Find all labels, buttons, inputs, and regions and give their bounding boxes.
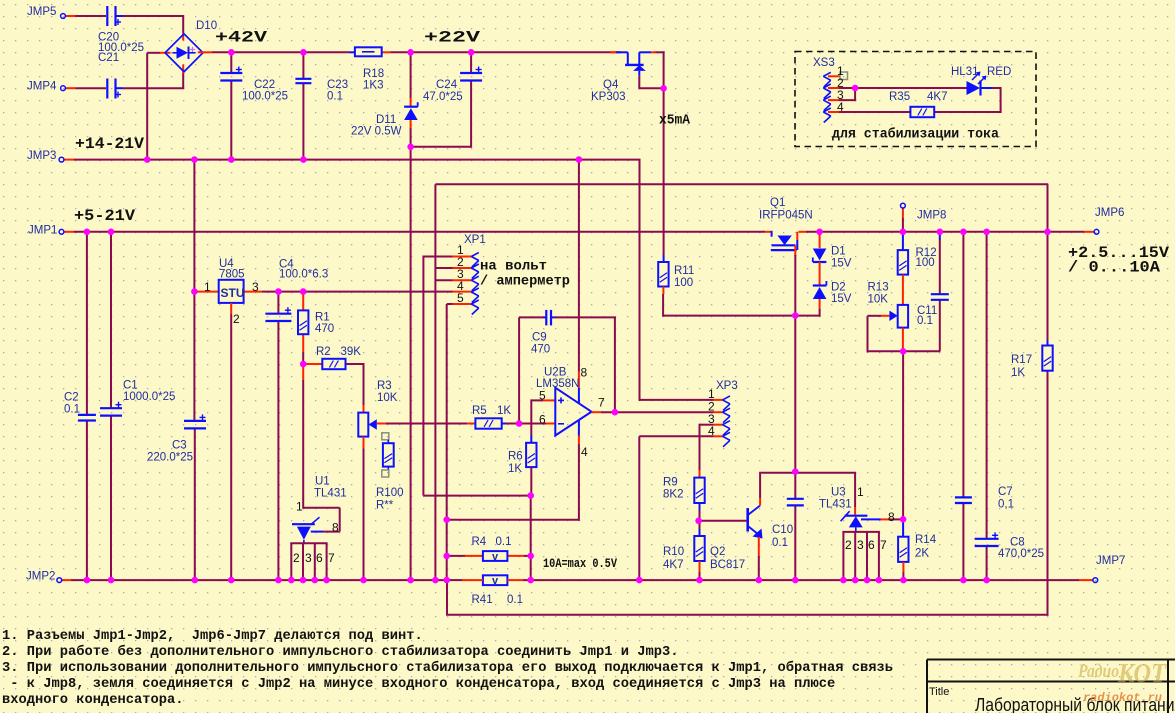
wire JMP2 ground rail [62,579,71,581]
svg-text:HL31: HL31 [951,66,979,78]
svg-text:TL431: TL431 [819,499,852,511]
capacitor C7 [955,496,972,498]
connector XS3 [823,72,831,76]
svg-text:Радио: Радио [1077,661,1119,682]
junction dot R6 bottom node [527,492,534,499]
capacitor C23 [295,78,311,80]
capacitor C11 [931,293,949,295]
svg-text:7: 7 [598,396,605,410]
resistor R14 lead [902,519,904,536]
wire Q4 drain to node [656,51,665,53]
connector XS3 dashed box [795,52,1036,147]
wire op-amp plus input to R6 [543,399,555,401]
wire U4 pin1 column from JMP3 [193,159,195,292]
op-amp U2B LM358N [555,388,591,436]
wire XP3 pin4 ground column [639,435,713,437]
svg-text:10A=max 0.5V: 10A=max 0.5V [543,557,617,571]
svg-text:JMP8: JMP8 [917,210,946,222]
resistor R2 [322,359,345,369]
svg-text:JMP5: JMP5 [27,6,56,18]
wire pin4 row to sense chain [446,519,579,521]
svg-text:STU: STU [221,286,245,300]
svg-text:R14: R14 [915,534,937,546]
svg-text:входного конденсатора.: входного конденсатора. [2,692,184,708]
wire R9 to R10 node [699,503,701,510]
wire R2 to R3 [363,364,365,405]
svg-text:+14-21V: +14-21V [75,135,145,153]
svg-text:C2: C2 [64,392,79,404]
svg-text:Q4: Q4 [603,79,619,91]
svg-text:TL431: TL431 [314,488,347,500]
svg-text:C1: C1 [123,380,138,392]
wire XS3 pin4 row through R35 [828,111,839,113]
svg-text:1: 1 [296,500,303,514]
svg-text:470,0*25: 470,0*25 [998,548,1044,560]
wire R3 wiper to R5 [377,423,386,425]
capacitor C24 column [470,52,472,73]
svg-text:220.0*25: 220.0*25 [147,452,193,464]
wire XS3 pin2 row to LED [828,87,839,89]
junction dot D11 bottom [407,144,414,151]
svg-text:Title: Title [929,686,949,698]
capacitor C3 column [193,292,195,421]
wire XP3 pin3 to R9 [700,424,714,426]
svg-text:для стабилизации тока: для стабилизации тока [832,127,1000,143]
wire U3 pins 2/3/6/7 comb [842,531,880,533]
capacitor C1 [100,407,122,409]
wire U4 pin2 ground column [230,303,232,314]
capacitor C4 [265,313,291,315]
svg-text:2. При работе без дополнительн: 2. При работе без дополнительного импуль… [2,644,679,660]
wire Q4 source loop [638,71,640,76]
svg-text:v: v [492,551,499,563]
shunt regulator U1 TL431 [292,523,315,525]
svg-text:100: 100 [674,277,693,289]
junction dot XS3 pin2/3 [852,85,859,92]
junction dots +42V rail [228,49,235,56]
svg-text:R18: R18 [363,68,384,80]
wire U4 output row to XP1 pin4 [262,291,453,293]
svg-text:JMP3: JMP3 [27,150,56,162]
svg-text:1K: 1K [508,463,522,475]
svg-text:7: 7 [328,551,335,565]
capacitor C2 [78,414,96,416]
wire XP1 pin5 chain [447,303,453,305]
wire bridge minus to JMP3 rail [160,52,171,54]
capacitor C22 column [230,52,232,73]
svg-text:8: 8 [581,366,588,380]
svg-text:2: 2 [293,551,300,565]
svg-text:x5mA: x5mA [659,114,691,129]
wire Q2 base row [698,520,747,522]
wire op-amp output row [592,411,602,413]
svg-text:JMP7: JMP7 [1096,555,1125,567]
svg-text:470: 470 [315,323,334,335]
svg-text:1K3: 1K3 [363,80,383,92]
svg-text:6: 6 [868,538,875,552]
wire op-amp pin4 V- column [578,420,580,436]
svg-text:C9: C9 [532,332,547,344]
junction dot op-amp output node [612,409,619,416]
svg-text:6: 6 [316,551,323,565]
pin JMP4 [61,86,66,91]
svg-text:D2: D2 [831,282,846,294]
svg-text:6: 6 [539,413,546,427]
svg-text:0.1: 0.1 [772,537,788,549]
potentiometer R13 [898,305,908,328]
svg-text:U2B: U2B [544,367,567,379]
svg-text:+5-21V: +5-21V [74,207,136,225]
resistor R14 [898,537,908,562]
svg-text:IRFP045N: IRFP045N [759,210,813,222]
svg-text:1: 1 [204,280,211,294]
svg-text:JMP1: JMP1 [28,225,57,237]
connector XP3 [723,396,731,400]
wire R6 bottom to sense node [530,467,532,497]
capacitor C20 [106,6,108,26]
resistor R17 [1042,346,1052,371]
junction dot R13 node [900,348,907,355]
capacitor C8 column [986,232,988,539]
wire JMP8 stub [902,208,904,218]
capacitor C4 column [277,292,279,314]
svg-text:R10: R10 [663,546,684,558]
wire sense loop bottom [446,614,1049,616]
svg-text:8: 8 [332,521,339,535]
svg-text:2: 2 [845,538,852,552]
resistor R35 [910,107,934,117]
resistor R18 [355,47,382,56]
svg-text:JMP4: JMP4 [27,81,57,93]
junction dot C10/U3 row [792,468,799,475]
wire bridge bottom lead [182,73,184,88]
wire R12 to R13 [902,275,904,305]
LED HL31 [967,81,981,95]
transistor Q2 BC817 [746,508,749,532]
svg-text:КОТ: КОТ [1117,658,1167,688]
svg-text:8: 8 [888,510,895,524]
resistor R100 with test pads [382,433,389,440]
svg-text:- к Jmp8, земля соединяется с: - к Jmp8, земля соединяется с Jmp2 на ми… [2,676,835,692]
svg-text:BC817: BC817 [710,559,745,571]
resistor R5 [475,418,501,428]
zener D1 lead [819,231,821,248]
pin JMP8 [901,203,906,208]
svg-text:C24: C24 [436,79,458,91]
wire x5mA column to R11 [663,88,665,255]
svg-text:22V 0.5W: 22V 0.5W [351,126,402,138]
svg-text:15V: 15V [831,293,852,305]
svg-text:R6: R6 [508,451,523,463]
svg-text:3: 3 [252,280,259,294]
capacitor C1 column [110,232,112,408]
wire R13 bottom [902,328,904,352]
svg-text:10K: 10K [868,294,889,306]
svg-text:RED: RED [987,66,1011,78]
zener diode D1 [813,249,827,261]
svg-text:7: 7 [880,538,887,552]
wire D1-D2 link [819,262,821,286]
svg-text:3: 3 [305,551,312,565]
svg-text:C10: C10 [772,524,793,536]
pin JMP5 [61,14,66,19]
svg-text:XP1: XP1 [464,234,486,246]
wire R3 bottom column [363,437,365,449]
svg-text:470: 470 [531,344,550,356]
resistor R10 lead [699,521,701,529]
svg-text:/ амперметр: / амперметр [480,274,570,290]
svg-text:5: 5 [457,291,464,305]
svg-text:C22: C22 [254,79,275,91]
connector XP1 [471,253,479,257]
svg-text:R17: R17 [1011,354,1032,366]
svg-text:radiokot.ru: radiokot.ru [1083,692,1162,705]
svg-text:U1: U1 [315,476,330,488]
capacitor C9 feedback loop [518,317,520,424]
capacitor C11 column [939,232,941,240]
wire R13 wiper loop [881,315,889,317]
wire +42V rail [198,51,212,53]
svg-text:0.1: 0.1 [64,404,80,416]
shunt regulator U3 TL431 [845,515,868,517]
wire R11 bottom to output node [662,287,664,295]
junction dots control row [443,516,450,523]
wire sense column right [530,496,532,581]
wire U3 pin1 lead [854,473,856,507]
capacitor C8 [975,538,999,540]
resistor R4 (shunt V) [483,551,508,561]
wire R13 node down to TL431 ref row [902,351,904,519]
svg-text:2: 2 [233,312,240,326]
svg-text:0.1: 0.1 [507,594,523,606]
junction dots R4 row [443,553,450,560]
svg-text:D1: D1 [831,246,846,258]
transistor Q1 IRFP045N [771,231,773,237]
svg-text:100: 100 [916,257,935,269]
capacitor C7 column [962,232,964,498]
wire Q1 drain column [794,245,796,256]
junction dots output rail [84,229,91,236]
zener D11 column [410,52,412,98]
title block frame [927,659,1175,661]
wire R5 to op-amp minus input [502,423,506,425]
svg-text:10K: 10K [377,392,398,404]
svg-text:R3: R3 [377,380,392,392]
svg-text:7805: 7805 [219,269,245,281]
junction dots JMP2 ground rail [84,577,91,584]
svg-text:0.1: 0.1 [496,536,512,548]
pin JMP1 [59,229,64,234]
svg-text:JMP6: JMP6 [1095,207,1124,219]
capacitor C9 [545,310,547,326]
wire R10 bottom [699,561,701,572]
resistor R6 [526,443,536,467]
pin JMP6 [1094,229,1099,234]
svg-text:R1: R1 [315,312,330,324]
svg-text:39K: 39K [341,346,362,358]
junction dot Q4 node [660,85,667,92]
svg-text:4: 4 [837,100,844,114]
svg-text:2K: 2K [915,548,929,560]
wire U3 ref pin8 row [861,518,881,520]
svg-text:D10: D10 [196,20,217,32]
svg-text:Q2: Q2 [710,546,725,558]
svg-text:0.1: 0.1 [327,91,343,103]
svg-text:+22V: +22V [424,29,481,47]
wire Q1 gate lead [796,232,798,240]
svg-text:47.0*25: 47.0*25 [423,91,463,103]
svg-text:0.1: 0.1 [917,315,933,327]
wire Q2 collector [759,498,761,506]
resistor R2 leads [303,363,322,365]
svg-text:D11: D11 [376,114,396,126]
junction dot op-amp minus node [516,420,523,427]
wire JMP4 input row [66,87,76,89]
junction dots U4 output row [191,288,198,295]
svg-text:100.0*25: 100.0*25 [242,91,288,103]
wire collector node row y=472 [759,472,856,474]
resistor R41 (shunt V) [483,575,508,585]
wire XP1 pin2/pin3 column [434,184,436,581]
svg-text:4: 4 [581,445,588,459]
svg-text:15V: 15V [831,258,852,270]
capacitor C24 [460,72,482,74]
junction dots JMP3 rail [144,156,151,163]
capacitor C2 column [86,232,88,415]
wire bridge top lead [182,15,184,33]
svg-text:JMP2: JMP2 [26,571,55,583]
watermark RadioKOT [1077,658,1167,688]
svg-text:R11: R11 [674,265,694,277]
svg-text:R**: R** [376,500,394,512]
svg-text:0,1: 0,1 [998,499,1014,511]
svg-text:8K2: 8K2 [663,489,683,501]
wire JMP5 input row [66,15,76,17]
wire +5-21V / output rail [64,231,74,233]
wire U1 pins 2/3/6/7 comb [290,542,327,544]
pin JMP2 [57,578,62,583]
svg-text:C3: C3 [172,440,187,452]
wire feedback line y=184 [435,183,1048,185]
svg-text:4K7: 4K7 [663,559,683,571]
wire D11 to C24 bottom link [410,146,472,148]
svg-text:1. Разъемы Jmp1-Jmp2, Jmp6-Jm: 1. Разъемы Jmp1-Jmp2, Jmp6-Jmp7 делаются… [2,628,423,644]
pin JMP3 [59,157,64,162]
wire drain node down to C10/U3 row [794,316,796,473]
zener diode D11 [404,108,418,120]
resistor R1 leads [302,292,304,311]
wire R4 row [447,555,465,557]
svg-text:1: 1 [857,485,864,499]
wire JMP3 +14-21V rail [64,159,74,161]
wire rail down to XP3 pin1 (voltmeter supply) [639,160,641,401]
wire op-amp pin8 V+ column [578,159,580,372]
wire Q2 emitter [758,537,760,556]
svg-text:1K: 1K [497,405,511,417]
zener diode D2 [813,287,827,299]
svg-text:R9: R9 [663,477,678,489]
svg-text:/ 0...10A: / 0...10A [1068,259,1161,277]
svg-text:R4: R4 [472,536,487,548]
svg-text:R100: R100 [376,487,404,499]
svg-text:XP3: XP3 [716,380,738,392]
svg-text:Q1: Q1 [770,197,785,209]
svg-text:+42V: +42V [215,29,268,47]
resistor R12 [898,250,908,275]
capacitor C23 column [302,52,304,79]
IC U4 7805 leads [195,291,218,293]
bridge rectifier D10 [165,34,203,72]
wire XP1 pin1 chain [423,256,452,258]
svg-text:на вольт: на вольт [480,259,547,275]
pin JMP7 [1093,578,1098,583]
resistor R12 lead [902,232,904,250]
XS3 pin1 stub and no-connect pad [828,75,840,77]
resistor R10 [694,536,704,561]
svg-text:U3: U3 [831,487,846,499]
svg-text:R2: R2 [316,346,331,358]
wire XS3 pin3 tie [828,99,839,101]
svg-text:R13: R13 [868,282,889,294]
svg-text:4: 4 [708,424,715,438]
svg-text:1K: 1K [1011,367,1025,379]
svg-text:4K7: 4K7 [927,91,947,103]
svg-text:3. При использовании дополните: 3. При использовании дополнительного имп… [2,660,893,676]
svg-text:v: v [492,575,499,587]
svg-text:R41: R41 [472,594,493,606]
resistor R1 [298,310,308,334]
svg-text:XS3: XS3 [813,57,835,69]
wire D2 bottom [819,299,821,309]
junction dot R1/R2 node [300,361,307,368]
capacitor C10 [787,498,804,500]
capacitor C10 column [794,472,796,499]
svg-text:KP303: KP303 [591,91,626,103]
capacitor C3 [184,420,206,422]
svg-text:100.0*6.3: 100.0*6.3 [279,269,328,281]
svg-text:R5: R5 [472,405,487,417]
svg-text:3: 3 [857,538,864,552]
IC U4 7805 [219,280,244,303]
svg-text:C8: C8 [1010,537,1025,549]
capacitor C22 [220,72,242,74]
svg-text:C21: C21 [98,52,119,64]
resistor R17 column [1047,184,1049,340]
resistor R9 [694,478,704,503]
svg-text:5: 5 [539,389,546,403]
svg-text:C23: C23 [327,79,348,91]
junction dot drain node [792,312,799,319]
potentiometer R3 [358,413,368,437]
wire R14 bottom [902,562,904,572]
svg-text:1000.0*25: 1000.0*25 [123,391,175,403]
transistor Q4 KP303 [610,51,616,53]
resistor R11 [658,262,668,287]
capacitor C21 [106,79,108,99]
shunt regulator U1 TL431 wiring [302,364,304,380]
svg-text:R35: R35 [889,91,910,103]
svg-text:C7: C7 [998,486,1013,498]
